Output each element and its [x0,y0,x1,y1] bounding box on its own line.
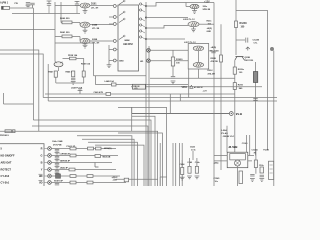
wire HD1 row [150,49,188,51]
LED D102 [80,22,90,27]
ground under D102 [84,28,86,31]
pin circles right of U1 with arms [140,3,142,5]
wire from node y28 stepped [146,26,188,29]
diode D201 [190,4,199,8]
svg-text:SPB-3B: SPB-3B [203,9,211,11]
wire x246.5 vertical [246,135,248,152]
svg-text:4T4-2W: 4T4-2W [208,72,215,75]
capacitor C205 [211,51,215,53]
wire bus vertical x149 [148,46,150,186]
wire stems RC group [182,158,197,168]
svg-text:GND: GND [119,61,124,63]
resistor R-PROSE pair [5,130,12,133]
resistor row R [70,147,76,150]
svg-text:Y: Y [41,168,43,172]
wire y104 short [4,93,34,104]
wire bus y94 [45,93,235,95]
wire row R [51,148,116,150]
wire vertical rail x214 [213,3,215,187]
wire y78 horizontal [150,77,235,79]
svg-text:C1249: C1249 [253,38,260,41]
pin G socket [44,155,48,157]
capacitor C903 with top tie [48,1,50,3]
capacitor C901 top-left [26,2,30,4]
component X1 below relay [239,171,243,184]
svg-text:C1245: C1245 [214,177,221,180]
svg-text:R20x: R20x [207,20,213,22]
svg-text:+(B)JJ: +(B)JJ [112,177,118,179]
capacitor C1249 [245,38,247,43]
svg-text:R209: R209 [238,85,244,87]
pin HD2 on bus [147,59,151,63]
wire L207 edge down to bus [188,69,190,98]
pin R socket [44,148,48,150]
resistor C640b [188,166,191,173]
svg-text:41.0B W: 41.0B W [194,86,203,89]
capacitor under R646 [71,78,75,80]
svg-text:MOB(D): MOB(D) [104,148,112,150]
svg-text:R20B: R20B [211,58,217,60]
wire supply y8 [10,7,34,9]
svg-text:PROSE U: PROSE U [0,135,10,137]
svg-text:HEF4052: HEF4052 [123,43,133,46]
wire vertical rail x61 [60,2,62,23]
inductor L207 coil A [193,46,203,51]
svg-text:470: 470 [134,87,137,90]
wire y29.5 horizontal [0,29,55,31]
svg-text:TA/RGB 4P: TA/RGB 4P [60,160,71,163]
svg-text:GND: GND [207,31,212,33]
wire vertical x48 to bus [47,64,49,101]
svg-text:2SC2120: 2SC2120 [245,60,255,62]
svg-text:B: B [41,161,43,165]
svg-text:L203 PL-12: L203 PL-12 [183,19,195,21]
wire stair s6 [95,145,144,186]
pin B socket [44,162,48,164]
wire C643 stem [192,151,194,160]
wire stubs pins 49 60 [109,50,113,61]
wire relay left pins [214,156,227,161]
wire under R647 [56,77,84,83]
svg-text:R041 220: R041 220 [60,31,70,34]
svg-text:CURGB 2P: CURGB 2P [60,154,71,156]
capacitor row Y [55,170,59,172]
LED D103 [80,38,90,43]
wire vertical far right x273.8 [273,51,275,186]
svg-text:R209x: R209x [238,69,245,71]
capacitor C647 [82,71,85,77]
svg-text:+B(D): +B(D) [211,47,217,49]
svg-text:J8-5BB: J8-5BB [228,145,237,149]
ground at x109 [107,65,112,68]
svg-text:AR2-DAT: AR2-DAT [1,161,12,165]
svg-text:L204: L204 [222,129,228,132]
svg-text:CY-2h2: CY-2h2 [1,174,10,178]
wire row VD [51,182,126,184]
wire long vertical x33 with bottom turn [32,8,34,120]
inductor L203 [188,22,199,27]
node to C1249 [236,39,245,41]
relay RL1 outer box [227,152,248,168]
ground under R1920 [171,81,176,84]
capacitor C640 on bus [106,92,111,95]
wire y107.5 fan [118,108,167,187]
label REON 470 box [132,84,145,89]
wire row B [51,162,112,164]
wire relay bottom stem [237,166,239,186]
wire to D201 [186,3,190,7]
wire from node y6 stepped [146,3,214,7]
wire vertical x180 [179,94,181,101]
svg-text:HD: HD [140,61,144,63]
wire y43 to x93.5 drop [55,43,94,76]
ground under C1247 [250,179,255,182]
svg-text:+B(D): +B(D) [207,28,213,30]
svg-text:A;PM 1: A;PM 1 [0,1,9,4]
ground on bus y94 [79,90,81,94]
wire row HD [51,175,120,177]
svg-text:MAS AB: MAS AB [103,156,111,159]
svg-text:+(B)x: +(B)x [214,163,220,165]
transistor Q20B [236,56,244,58]
wire vertical rail x55 [54,2,56,62]
svg-text:220B: 220B [92,39,98,41]
wire Q601 collector to R645 [63,57,84,59]
ground under D101 [84,8,86,11]
wire 9V-B feed [132,107,230,114]
wire LED3 row [55,37,113,42]
wire y13.5 horizontal [12,13,80,15]
wire LED1 row [55,5,113,7]
inductor L64B on wire [112,83,117,86]
wire vertical x170 [169,94,171,114]
capacitor C120B electrolytic [253,72,257,83]
wire x227 down to relay [226,126,228,152]
transistor Q601 [54,62,63,67]
wire bus y86.7 [131,86,262,88]
svg-text:SUM 10P: SUM 10P [54,180,64,182]
pin circles left of U1 [113,5,116,8]
resistor R209B [233,83,236,90]
wire R1920 stem [172,50,174,76]
wire bundle verticals [159,143,161,186]
svg-text:LTL 3H: LTL 3H [91,8,99,10]
capacitor C121 marks [253,99,257,101]
resistor row G [70,154,76,157]
svg-text:TU3B: TU3B [263,150,269,152]
svg-text:CY-3h1: CY-3h1 [1,181,10,185]
svg-text:C643: C643 [190,145,196,148]
inductor assembly L207 box [188,44,209,70]
pin VD socket [44,182,48,184]
svg-text:R: R [41,147,43,151]
svg-text:ROTECT: ROTECT [1,168,12,172]
svg-text:9V-B: 9V-B [236,112,242,116]
resistor R647 vertical [54,71,57,77]
capacitor C1247 [250,174,254,176]
svg-text:HD: HD [39,174,43,178]
svg-text:J220B 1OJ: J220B 1OJ [223,136,235,138]
wire y120 from x33 [33,120,151,186]
wire between coils [197,51,199,63]
connector J601 box [0,144,44,188]
ground under R646 [71,81,76,84]
capacitor row R [55,149,59,151]
resistor R209A [233,67,236,74]
resistor R20B on rail [220,55,223,62]
ground under D103 [84,44,86,46]
wire x83.7 vertical [83,58,85,83]
wire x249.7 vertical [249,135,251,156]
pin HD1 on bus [147,48,151,52]
pin HD socket [44,175,48,177]
capacitor row HD dark [56,174,61,178]
svg-text:J-DD: J-DD [113,180,118,182]
resistor row VD [70,181,76,184]
svg-text:L648 PL/1A: L648 PL/1A [71,86,83,89]
terminal 9V-B [229,112,233,116]
svg-text:D101: D101 [91,4,97,6]
wire vertical x234.8 down [234,60,236,152]
op-amp U1 HEF4052 box [118,5,139,71]
capacitor row VD [55,183,59,185]
svg-text:LTL 3B: LTL 3B [92,28,100,30]
terminal far right [270,47,273,50]
wire stair s3 [77,136,132,186]
inductor L207 coil B [193,62,203,67]
svg-text:+B(D) 4P: +B(D) 4P [60,167,69,170]
wire row Y [51,169,116,171]
resistor R1247 [260,167,264,173]
svg-text:474 3W: 474 3W [211,60,218,63]
ground under L203 [193,27,195,29]
wire LED2 row [61,23,113,25]
resistor R646 vertical [72,71,75,77]
LED D101 [80,3,90,8]
svg-text:R1920: R1920 [176,59,183,61]
resistor R1248 [235,21,238,28]
resistor R645 horizontal [70,57,77,60]
arrow symbol above Q20B [246,47,250,51]
wire stair s4 [82,139,134,186]
wire L203 right [199,23,214,25]
relay RL1 contact circle [235,160,241,166]
svg-text:PW: PW [15,3,18,5]
resistor row Y [69,168,75,171]
capacitor row B [55,163,59,165]
wire stair s2 [0,131,158,186]
svg-text:VD: VD [39,181,43,185]
svg-text:V350: V350 [182,87,188,89]
switch arms inside U1 [119,2,124,5]
wire vertical x236 from top [235,0,237,55]
capacitor under R1920 [171,77,175,79]
fuse F901 on supply wire [2,6,10,9]
wire stair s1 [32,126,148,186]
resistor R040 [62,21,72,24]
capacitor row G [55,156,59,158]
svg-text:C640 47B: C640 47B [94,91,104,94]
svg-text:D20J: D20J [208,70,214,72]
wire y116 fan [132,116,155,186]
svg-text:PE38 104: PE38 104 [68,54,78,57]
capacitor C902 top-left [30,3,34,5]
wire bus vertical x146 [145,2,147,186]
wire from node y17.5 [146,17,188,19]
node dots on bus [145,5,147,7]
resistor R041 [62,35,72,38]
svg-text:G: G [41,154,43,158]
resistor C644 [181,168,184,175]
relay RL1 inner stem [237,159,239,161]
svg-text:+CH: +CH [203,90,208,92]
wire L207 bottom stem [197,69,199,78]
wire bus y97.5 [43,97,277,99]
inductor row B [95,163,99,168]
wire stubs into U1 left pins [109,17,113,24]
svg-text:MB +CDD: MB +CDD [210,51,220,53]
relay RL1 coil box [230,154,246,160]
svg-text:204B: 204B [92,24,98,27]
capacitor C652 [124,178,128,182]
wire y179 short [116,178,158,180]
ground under D201 [194,9,196,11]
resistor row HD [70,175,76,178]
capacitor C904 with top tie [76,1,78,3]
svg-text:+12V: +12V [204,1,210,4]
resistor C64q [195,166,198,173]
svg-text:NS-ON/OFF: NS-ON/OFF [1,154,15,158]
svg-text:R1248: R1248 [240,22,248,25]
wire vertical x109 with ground [108,45,110,65]
wire HD2 row [150,60,188,62]
svg-text:Q20B: Q20B [245,57,251,59]
svg-text:DVT-P0B: DVT-P0B [53,144,62,146]
svg-text:WAW: WAW [124,39,129,42]
pin Y socket [44,169,48,171]
resistor R1246 [254,160,257,168]
wire from node y39 [146,38,185,40]
svg-text:R648 C04: R648 C04 [81,63,91,66]
wire bus y101 [48,100,277,102]
wire x131.7 down [131,114,133,132]
svg-text:R040 220: R040 220 [60,17,70,20]
wire relay right pins [248,156,254,161]
wire row G [51,155,118,157]
wire stair s5 [88,142,137,186]
wire top right corner [236,11,268,151]
wire vertical x255 with cap [255,62,257,156]
svg-text:C64x C64B: C64x C64B [52,140,63,143]
wire y54 horizontal with drop to bus [0,54,43,98]
wire bottom box corner [160,177,166,186]
regulator box right [269,161,274,179]
wire y50 horizontal with drop [0,50,39,131]
wire step below U1 [94,76,189,85]
resistor R1920 [171,57,174,66]
wire stair s7 long [118,133,162,186]
wire vertical rail x221 [220,24,222,170]
svg-text:C1246: C1246 [252,148,259,151]
